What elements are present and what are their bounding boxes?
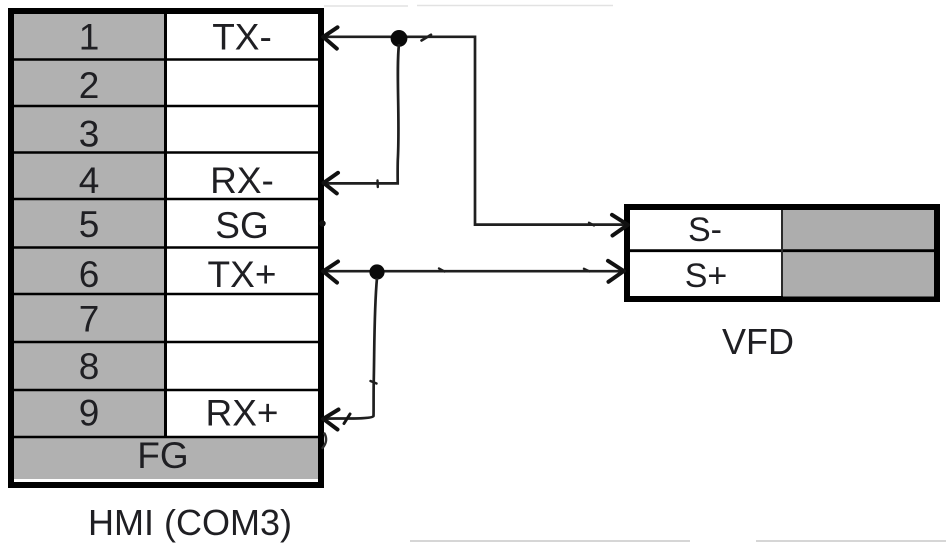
svg-text:S+: S+	[685, 257, 728, 295]
arrowhead into pin4 RX-	[324, 173, 338, 194]
svg-text:8: 8	[79, 346, 100, 387]
svg-text:S-: S-	[688, 211, 722, 249]
faint bottom border artifact lines	[410, 540, 946, 542]
connector VFD table body	[627, 207, 937, 299]
svg-text:RX+: RX+	[205, 393, 278, 434]
svg-text:5: 5	[79, 204, 100, 245]
svg-text:9: 9	[79, 393, 100, 434]
VFD gray cells	[783, 210, 934, 297]
svg-text:3: 3	[79, 114, 100, 155]
pin number column gray cells	[14, 14, 318, 479]
svg-text:4: 4	[79, 160, 100, 201]
small tick mark on TX+ wire	[439, 269, 445, 272]
svg-text:7: 7	[79, 299, 100, 340]
arrowhead into pin1 TX-	[323, 27, 337, 48]
junction dot on TX+ wire	[369, 264, 384, 279]
wire TX- to S- (horizontal from pin1, down, right into S-)	[324, 37, 626, 225]
pin signal labels	[205, 17, 278, 434]
small tick mark on TX- wire	[422, 35, 432, 41]
svg-text:6: 6	[79, 254, 100, 295]
svg-text:TX+: TX+	[208, 254, 277, 295]
svg-text:HMI (COM3): HMI (COM3)	[88, 502, 292, 543]
small arrow scribble on RX+ wire	[344, 414, 350, 424]
pin numbers 1-9	[79, 17, 100, 434]
junction dot on TX- wire	[391, 30, 408, 47]
arrowhead into pin9 RX+	[323, 410, 338, 430]
wire TX+ (pin6) to S+	[324, 270, 622, 273]
arrowhead into terminal S+	[608, 261, 624, 282]
svg-text:RX-: RX-	[210, 160, 274, 201]
svg-text:SG: SG	[215, 205, 268, 246]
VFD row divider	[630, 249, 934, 252]
row divider lines	[14, 60, 318, 438]
svg-text:1: 1	[79, 17, 100, 58]
small tick mark on RX- wire	[376, 181, 379, 188]
connector HMI (COM3) table body	[11, 11, 321, 485]
scribble artifact below RX+ near FG	[323, 434, 327, 449]
svg-text:FG: FG	[137, 435, 188, 476]
faint top border artifact line	[324, 5, 613, 8]
svg-text:TX-: TX-	[212, 17, 272, 58]
svg-text:VFD: VFD	[722, 321, 794, 362]
arrowhead into terminal S-	[612, 215, 628, 236]
small tick mark on S+ wire	[584, 269, 590, 272]
bump artifact on right border at SG row	[319, 220, 325, 226]
pin column divider	[164, 14, 167, 437]
wire branch junction to RX- (pin4)	[325, 44, 399, 183]
VFD column divider	[781, 210, 783, 296]
FG row gray cell	[14, 437, 318, 479]
wire branch junction to RX+ (pin9)	[325, 278, 377, 419]
small tick mark on RX+ branch vertical	[371, 381, 377, 384]
arrowhead into pin6 TX+	[323, 262, 338, 283]
svg-text:2: 2	[79, 65, 100, 106]
small tick mark on S- wire	[589, 223, 594, 226]
